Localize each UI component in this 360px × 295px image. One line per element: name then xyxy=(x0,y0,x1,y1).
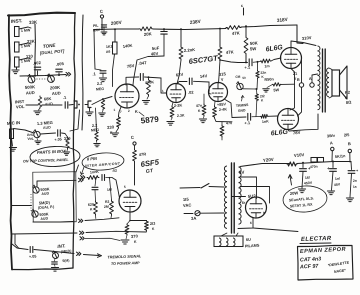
ground grid leak mic xyxy=(94,143,100,145)
tube V6 6SF5 xyxy=(119,190,141,212)
wire input bus vertical xyxy=(34,24,36,76)
resistor R 50K 5W screen xyxy=(245,26,247,36)
wire B+ rail mid xyxy=(153,29,226,30)
svg-text:.002: .002 xyxy=(32,60,41,66)
capacitor C filter 2 xyxy=(332,162,334,168)
svg-text:238V: 238V xyxy=(190,19,202,25)
wire V2 plate out xyxy=(177,82,187,85)
svg-text:5U?: 5U? xyxy=(248,193,257,199)
ground plug shield xyxy=(89,108,91,112)
svg-text:AUD: AUD xyxy=(26,90,35,96)
svg-text:21: 21 xyxy=(293,72,298,76)
inductor filament winding xyxy=(214,236,243,247)
svg-text:5: 5 xyxy=(124,185,126,189)
svg-text:1: 1 xyxy=(113,108,115,112)
wire trem bottom rail xyxy=(33,221,73,224)
capacitor C filter 1 xyxy=(302,163,304,168)
resistor 20K on rail xyxy=(139,27,153,31)
resistor R 620K xyxy=(94,201,98,215)
tube V3 6SC7b xyxy=(209,83,228,102)
svg-text:+.05: +.05 xyxy=(29,254,38,259)
wire tap2 to bus xyxy=(19,43,28,45)
svg-text:6L6G: 6L6G xyxy=(270,129,288,138)
wire B+ rail right xyxy=(241,25,297,27)
svg-text:(DUAL P.): (DUAL P.) xyxy=(38,205,55,210)
svg-text:AUD: AUD xyxy=(52,90,61,96)
wire V3 plate top out xyxy=(220,60,238,63)
ground filter 2 xyxy=(327,190,334,192)
wire plug to V1 grid xyxy=(92,97,112,105)
svg-text:6SC7GT: 6SC7GT xyxy=(188,53,219,66)
capacitor C int trem xyxy=(12,244,28,250)
wire to V5 grid xyxy=(268,115,278,117)
svg-text:2-2K: 2-2K xyxy=(174,103,183,108)
svg-text:CAT 4n3: CAT 4n3 xyxy=(300,256,322,263)
svg-text:470n: 470n xyxy=(310,164,318,169)
svg-text:318V: 318V xyxy=(277,17,289,23)
wire ELECTAR underline xyxy=(300,242,331,245)
svg-text:GND: GND xyxy=(238,108,246,113)
wire to V4 grid xyxy=(271,58,281,61)
svg-text:470: 470 xyxy=(226,121,232,125)
wire V3 cathode xyxy=(214,102,217,107)
svg-text:5W: 5W xyxy=(273,88,279,92)
resistor R plate 220K V2 xyxy=(180,30,182,47)
wire pot A out xyxy=(37,180,76,186)
svg-text:K: K xyxy=(198,109,201,113)
svg-text:2n: 2n xyxy=(353,179,357,183)
svg-text:1K2: 1K2 xyxy=(106,44,113,49)
ground int trem xyxy=(51,267,58,269)
svg-text:2I5: 2I5 xyxy=(344,132,351,138)
pot hum balance xyxy=(237,83,243,89)
svg-text:+.1: +.1 xyxy=(244,120,251,126)
svg-text:AUD: AUD xyxy=(43,125,51,130)
wire title box xyxy=(298,245,354,280)
wire tap3 to bus xyxy=(19,58,28,60)
svg-text:8Ω: 8Ω xyxy=(346,99,353,105)
svg-text:6U: 6U xyxy=(246,238,251,242)
wire tone out chevron xyxy=(66,72,68,76)
resistor R V3 cathode 2.4K xyxy=(213,106,217,118)
node rail dots xyxy=(101,28,103,30)
svg-text:-02: -02 xyxy=(112,169,117,173)
ground bypass .1 xyxy=(99,77,106,79)
svg-text:1 MW: 1 MW xyxy=(21,28,31,33)
svg-text:TRMNS: TRMNS xyxy=(236,103,249,108)
jack J1 input tap box xyxy=(15,27,20,37)
svg-text:6r: 6r xyxy=(242,201,246,205)
svg-text:B: B xyxy=(348,141,351,146)
pot tone A xyxy=(28,76,35,83)
wire bubble arrow xyxy=(82,167,85,174)
ground 68K xyxy=(39,108,41,110)
wire cap to V2 grid xyxy=(145,77,162,78)
svg-text:5W: 5W xyxy=(250,46,258,52)
wire rectifier bottom xyxy=(238,218,253,229)
wire V1 plate down xyxy=(113,54,115,87)
resistor R grid leak mic xyxy=(96,108,97,131)
inductor OT secondary xyxy=(327,68,329,73)
svg-text:*DEWLETTE: *DEWLETTE xyxy=(328,260,350,267)
node tone junction dots xyxy=(34,75,36,77)
node B test xyxy=(348,149,351,152)
wire B+ to OT xyxy=(297,25,303,44)
wire mic to pot xyxy=(14,129,35,134)
wire to filament winding xyxy=(221,233,227,236)
ground grid leak inst xyxy=(99,112,105,114)
tube V7 5U4G xyxy=(246,197,267,218)
svg-text:B: B xyxy=(297,78,300,82)
svg-text:ACF 97: ACF 97 xyxy=(299,263,320,270)
wire arrow to rail xyxy=(290,176,292,185)
resistor 330K mic xyxy=(62,132,66,135)
svg-text:50: 50 xyxy=(242,76,246,80)
svg-text:40V: 40V xyxy=(151,51,159,57)
wire screens node xyxy=(245,55,247,62)
wire row 233 xyxy=(11,233,77,234)
svg-text:2.2nK: 2.2nK xyxy=(184,47,196,53)
svg-text:500K: 500K xyxy=(25,84,36,90)
inductor OT primary xyxy=(318,46,320,51)
capacitor C filter 3 xyxy=(350,162,353,170)
wire V1 screen xyxy=(133,56,164,85)
wire enclosure right border (control panel boundary) xyxy=(73,13,75,268)
svg-text:R2: R2 xyxy=(105,200,110,204)
wire V3 plate bottom out xyxy=(225,100,232,118)
ground input chain xyxy=(16,67,18,69)
capacitor C coupling .047 xyxy=(139,74,141,81)
jack J4 mic xyxy=(10,129,14,139)
wire enclosure top border xyxy=(8,13,75,16)
svg-text:2M: 2M xyxy=(104,205,109,209)
capacitor C tone1 xyxy=(34,66,40,68)
svg-text:+.1: +.1 xyxy=(244,64,251,70)
svg-text:620: 620 xyxy=(88,203,94,207)
ground V1 cathode xyxy=(116,128,119,132)
wire V1 plate to cap xyxy=(126,77,139,85)
wire row 238 xyxy=(85,238,120,240)
svg-text:EPMAN ZEPOR: EPMAN ZEPOR xyxy=(300,247,346,255)
svg-text:33K: 33K xyxy=(29,20,38,25)
wire pot gang dotted 2 xyxy=(30,194,32,211)
resistor R 2I2 lower xyxy=(256,89,258,94)
svg-text:ELECTAR: ELECTAR xyxy=(301,236,332,243)
wire T1 core xyxy=(231,163,233,233)
wire enclosure left border xyxy=(9,15,12,270)
svg-text:1n/: 1n/ xyxy=(335,177,340,181)
resistor R cathode 2I3 xyxy=(145,221,149,232)
svg-text:.02: .02 xyxy=(188,90,195,95)
resistor R cathode 50 xyxy=(273,83,282,86)
wire cathodes xyxy=(290,69,295,111)
wire frame to bubble xyxy=(76,165,79,172)
capacitor C pilot bypass xyxy=(101,24,106,26)
resistor R tail 470 xyxy=(220,125,224,137)
resistor R filter choke xyxy=(287,162,297,166)
pot mic volume xyxy=(34,131,40,137)
svg-text:68K: 68K xyxy=(44,96,52,102)
node A test xyxy=(331,147,334,150)
resistor R grid stopper bottom xyxy=(252,116,261,118)
svg-text:1s: 1s xyxy=(353,185,357,189)
svg-text:R50n: R50n xyxy=(264,77,274,82)
ground cathode 50 xyxy=(267,84,273,87)
wire HV secondary to rectifier plate xyxy=(232,196,246,198)
svg-text:5K/1n: 5K/1n xyxy=(335,154,346,159)
ground 470K xyxy=(142,100,149,102)
svg-text:315: 315 xyxy=(219,71,227,77)
wire OT sec to speaker xyxy=(329,68,332,70)
wire tap stubs xyxy=(28,27,31,28)
ground mic pot xyxy=(36,138,39,140)
tube V4 6L6 top xyxy=(281,48,302,69)
svg-text:310V: 310V xyxy=(302,35,312,41)
svg-text:AUD: AUD xyxy=(41,191,49,196)
capacitor C screen 5uF xyxy=(163,29,165,31)
svg-text:INTER AMP/CONT: INTER AMP/CONT xyxy=(85,161,121,167)
svg-text:c: c xyxy=(241,3,244,8)
svg-text:C: C xyxy=(100,9,104,14)
capacitor C interstage .02 xyxy=(188,78,190,84)
ground 330K mic xyxy=(66,149,69,151)
wire filter rail xyxy=(297,162,351,164)
svg-text:+85V: +85V xyxy=(217,102,227,107)
svg-text:50K: 50K xyxy=(250,40,259,46)
resistor R filter boxes xyxy=(311,158,317,163)
wire V2 cathode xyxy=(172,103,173,107)
jack J3 input tap box xyxy=(15,57,20,67)
svg-text:SEunATL ALS.: SEunATL ALS. xyxy=(289,196,314,202)
svg-text:V10V: V10V xyxy=(294,152,305,158)
wire tap1 to bus xyxy=(19,27,28,29)
resistor R 100K trem xyxy=(81,176,83,179)
resistor R 2M trem xyxy=(109,177,111,179)
connector interconnect plug right xyxy=(88,101,91,108)
transformer T1 secondary winding xyxy=(239,167,242,172)
svg-text:78V: 78V xyxy=(126,63,134,69)
tube V2 6SC7a xyxy=(167,84,186,103)
resistor 47K on rail xyxy=(226,26,241,30)
ground V3 grid leak xyxy=(199,118,206,120)
svg-text:2-4K: 2-4K xyxy=(219,107,228,112)
capacitor C trem osc xyxy=(95,177,97,179)
wire V6 cathode xyxy=(130,212,147,221)
svg-text:NAGE*: NAGE* xyxy=(334,268,347,274)
svg-text:6SF5: 6SF5 xyxy=(140,157,160,169)
note bubble 8 pin xyxy=(81,152,124,172)
ground filter 1 xyxy=(298,188,305,190)
svg-text:SETAT 1L RX: SETAT 1L RX xyxy=(290,202,313,208)
speaker SP1 field coil xyxy=(332,70,340,96)
wire B+ rail left xyxy=(94,28,139,31)
svg-text:8 PIN: 8 PIN xyxy=(87,156,98,162)
svg-text:K: K xyxy=(261,98,264,102)
capacitor C bypass .1 xyxy=(95,69,101,70)
resistor 68K vertical xyxy=(38,96,41,108)
svg-text:.047: .047 xyxy=(138,60,147,66)
connector interconnect plug left xyxy=(74,101,77,108)
wire 5V lead b xyxy=(240,187,270,204)
jack J2 input tap box xyxy=(15,42,20,52)
svg-text:PARTS IN BOX: PARTS IN BOX xyxy=(37,148,67,155)
transformer T1 primary winding xyxy=(224,166,227,171)
svg-text:V: V xyxy=(221,78,224,82)
svg-text:200V: 200V xyxy=(111,20,123,26)
svg-text:1M: 1M xyxy=(107,188,112,192)
resistor R grid stopper top xyxy=(261,59,272,63)
svg-text:K: K xyxy=(135,109,138,114)
pot trem A xyxy=(33,187,39,193)
wire tone gang dotted xyxy=(37,78,48,80)
svg-text:VoL: VoL xyxy=(27,137,34,141)
svg-text:K: K xyxy=(90,207,93,211)
svg-text:.005: .005 xyxy=(55,61,64,67)
svg-text:3A: 3A xyxy=(191,216,197,221)
wire V4 plate xyxy=(291,41,316,48)
svg-text:47R: 47R xyxy=(139,151,147,157)
svg-text:2.3K: 2.3K xyxy=(177,113,185,118)
wire V1 cathode xyxy=(119,107,122,116)
wire screen feed down xyxy=(94,30,95,70)
svg-text:INST.: INST. xyxy=(11,18,23,24)
wire enclosure bottom border xyxy=(12,268,73,270)
wire hum node xyxy=(256,88,258,90)
svg-text:[DUAL POT]: [DUAL POT] xyxy=(39,48,65,55)
svg-text:7: 7 xyxy=(120,110,122,114)
svg-text:ON TOP CONTROL PANEL: ON TOP CONTROL PANEL xyxy=(23,158,69,164)
wire pot to cap xyxy=(41,133,56,134)
resistor R 470K grid xyxy=(148,76,150,78)
wire OT core xyxy=(322,49,324,112)
resistor R plate box 1K2 xyxy=(114,29,116,42)
wire trem out arrow xyxy=(50,251,74,254)
svg-text:A6: A6 xyxy=(106,50,111,54)
wire to plug xyxy=(69,104,73,107)
svg-text:370: 370 xyxy=(131,233,139,239)
svg-text:2: 2 xyxy=(128,109,130,113)
svg-text:1m: 1m xyxy=(264,64,270,68)
svg-text:47K: 47K xyxy=(232,30,241,36)
wire interconnect boundary xyxy=(82,15,83,130)
fuse F1 3A xyxy=(184,213,193,215)
note bubble parts in box xyxy=(30,146,81,168)
svg-text:20K: 20K xyxy=(144,31,153,37)
wire pot B in xyxy=(11,205,32,207)
pot tone B xyxy=(48,76,55,83)
wire mic up to plug xyxy=(70,110,80,131)
svg-text:GT: GT xyxy=(145,168,154,175)
capacitor C out top .1 xyxy=(238,62,248,64)
wire 5V lead a xyxy=(241,177,257,199)
svg-text:6: 6 xyxy=(250,221,252,225)
svg-text:62V: 62V xyxy=(176,72,184,78)
wire V5 plate xyxy=(288,114,318,131)
svg-text:5V: 5V xyxy=(239,170,245,175)
svg-text:47n: 47n xyxy=(196,104,203,108)
tube V1 5879 xyxy=(115,84,139,108)
svg-text:3Wv: 3Wv xyxy=(327,133,336,139)
svg-text:VOL: VOL xyxy=(16,104,25,110)
capacitor C inst coupling xyxy=(64,102,66,108)
svg-text:AUD: AUD xyxy=(40,216,48,221)
resistor R 47K trem plate xyxy=(133,149,137,162)
svg-text:C: C xyxy=(131,135,135,140)
ground filter 3 xyxy=(346,197,353,199)
svg-text:1: 1 xyxy=(162,89,164,93)
svg-text:2I3: 2I3 xyxy=(150,222,156,226)
capacitor C mic coupling xyxy=(57,130,59,136)
resistor R cathode 330 xyxy=(117,116,121,128)
wire tail bottom xyxy=(221,137,223,140)
svg-text:2.2: 2.2 xyxy=(97,82,103,86)
svg-text:14V: 14V xyxy=(200,73,208,79)
svg-text:+.05: +.05 xyxy=(54,137,62,142)
wire cap to V3 grid xyxy=(194,80,210,83)
svg-text:20W: 20W xyxy=(290,190,299,196)
wire inst vol row xyxy=(26,104,38,106)
svg-text:1I5: 1I5 xyxy=(183,197,190,202)
node filter dots xyxy=(302,162,304,164)
resistor R 370 trem xyxy=(129,220,131,222)
svg-text:.1: .1 xyxy=(63,95,68,100)
svg-text:8: 8 xyxy=(263,211,265,215)
pot int trem xyxy=(53,253,59,259)
wire cathode to bottom rail xyxy=(215,118,233,122)
svg-text:45V: 45V xyxy=(334,182,341,187)
svg-text:Q: Q xyxy=(345,96,348,100)
speaker SP1 cone xyxy=(340,66,348,99)
capacitor C trem coupling xyxy=(101,175,103,181)
svg-text:CM: CM xyxy=(235,75,241,79)
ground V2 cathode xyxy=(171,118,172,120)
resistor R 22K screen xyxy=(257,62,259,70)
wire tone bus xyxy=(20,75,66,77)
svg-text:5879: 5879 xyxy=(140,115,159,126)
svg-text:VAC: VAC xyxy=(183,202,192,208)
svg-text:Y20V: Y20V xyxy=(263,157,274,163)
capacitor C out bottom .1 xyxy=(247,113,249,120)
svg-text:TONE: TONE xyxy=(43,43,57,49)
svg-text:140K: 140K xyxy=(122,43,132,49)
svg-text:330: 330 xyxy=(107,124,115,130)
svg-text:A: A xyxy=(330,140,333,145)
svg-text:47K: 47K xyxy=(226,49,235,55)
ground mic jack xyxy=(12,139,13,147)
wire vertical x15 xyxy=(15,234,19,249)
resistor R grid leak inst xyxy=(102,98,104,100)
svg-text:MEG: MEG xyxy=(96,87,105,92)
wire cap to grid res top xyxy=(253,61,260,64)
svg-text:+: + xyxy=(356,169,359,173)
resistor R plate 47K V3 xyxy=(219,29,221,47)
wire pots frame xyxy=(33,172,76,222)
svg-text:PILAMS: PILAMS xyxy=(245,243,260,248)
resistor R V2 cathode 2.2K xyxy=(170,106,174,118)
svg-text:MIC IN: MIC IN xyxy=(7,120,21,126)
wire 5V loop top xyxy=(240,164,290,167)
svg-text:5(M): 5(M) xyxy=(62,259,69,263)
capacitor C tone2 xyxy=(56,68,62,70)
svg-text:1nK: 1nK xyxy=(262,119,270,124)
svg-text:AUD: AUD xyxy=(45,102,53,107)
ground 370 xyxy=(126,235,127,239)
svg-text:TO POWER AMP: TO POWER AMP xyxy=(111,261,140,266)
svg-text:TREMOLO SIGNAL: TREMOLO SIGNAL xyxy=(107,254,142,259)
svg-text:450V: 450V xyxy=(304,181,313,186)
svg-text:6L6G: 6L6G xyxy=(265,44,284,53)
svg-text:K: K xyxy=(134,240,137,244)
